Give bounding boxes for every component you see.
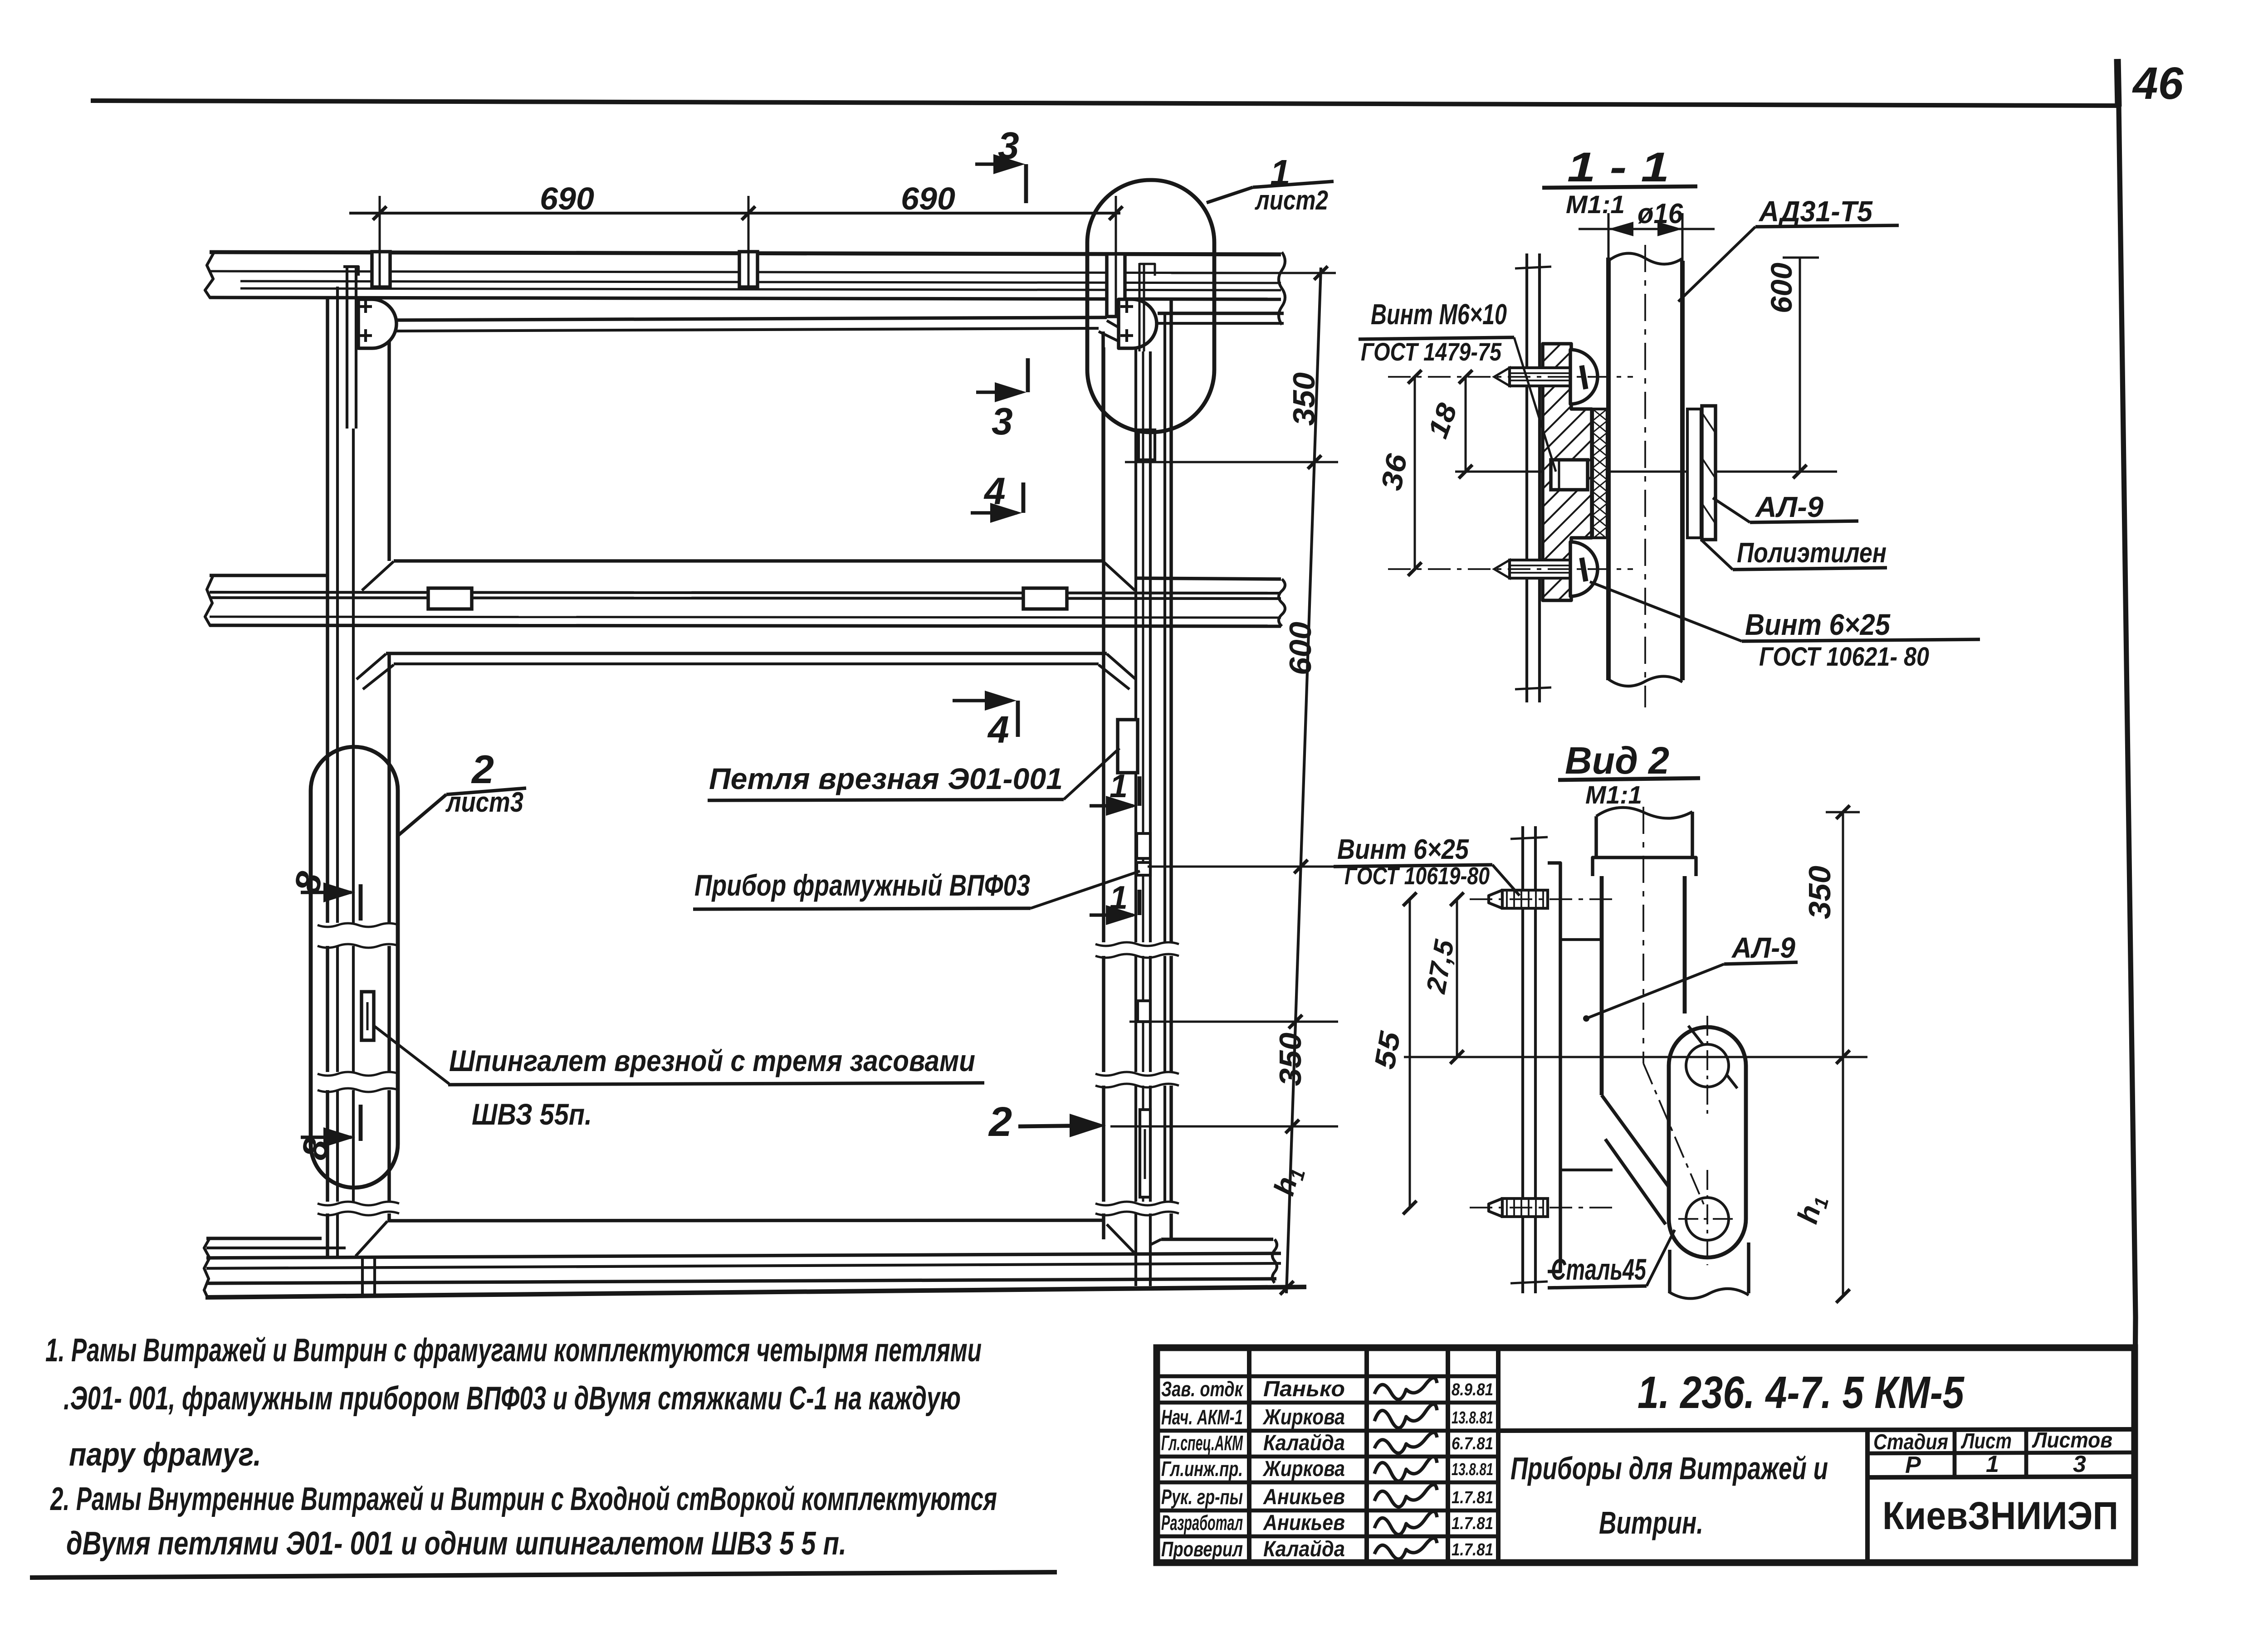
v2 tube centerline [1642, 807, 1644, 1063]
v2 tube collar [1593, 857, 1696, 876]
v2 lower screw [1489, 1199, 1502, 1217]
label: shpingalet underline [448, 1083, 984, 1085]
sill right profile top [1161, 1237, 1273, 1241]
v2 arm centerline diagonal [1643, 1063, 1706, 1208]
v2 tube top break [1596, 808, 1692, 818]
lower opening head rail [386, 652, 1107, 655]
sill left profile top edge [206, 1237, 322, 1240]
right column break 2 [1095, 1072, 1179, 1076]
elevation: top bar left break [205, 252, 214, 298]
elevation: top horizontal profile bar [210, 252, 1281, 254]
svg-text:8.9.81: 8.9.81 [1452, 1380, 1493, 1399]
1-1 dim 18 [1465, 377, 1467, 472]
v2 dim 55 [1409, 899, 1411, 1208]
1-1 gasket strip left (crosshatch) [1593, 409, 1607, 538]
svg-text:Витрин.: Витрин. [1599, 1505, 1703, 1540]
svg-text:Вид 2: Вид 2 [1565, 739, 1669, 782]
left column bottom segment [326, 1213, 329, 1258]
left column outer lines (top segment) [326, 297, 329, 923]
svg-text:1.7.81: 1.7.81 [1452, 1488, 1493, 1507]
callout 1: leader [1207, 187, 1253, 203]
svg-text:2. Рамы Внутренние Витражей: 2. Рамы Внутренние Витражей и Витрин с В… [50, 1481, 997, 1517]
left column inner edge (top segment) [387, 655, 391, 923]
sill frame bottom rail top edge [387, 1220, 1104, 1221]
v2 arm diagonal [1602, 1095, 1673, 1193]
svg-text:Полиэтилен: Полиэтилен [1737, 537, 1887, 569]
svg-text:Калайда: Калайда [1263, 1537, 1345, 1561]
left column break 3 [318, 1202, 399, 1205]
v2 tube body [1600, 876, 1604, 1095]
strip fitting at capsule bottom [1139, 430, 1155, 460]
svg-text:1 - 1: 1 - 1 [1567, 144, 1669, 190]
svg-text:6.7.81: 6.7.81 [1452, 1434, 1493, 1453]
svg-text:КиевЗНИИЭП: КиевЗНИИЭП [1882, 1494, 2118, 1538]
sill left jagged end [204, 1238, 210, 1298]
right column outer-left edge [1102, 347, 1105, 942]
svg-text:350: 350 [1273, 1033, 1308, 1086]
1-1 tube AD31-T5 right edge [1680, 261, 1685, 680]
callout 2: fraction bar [446, 788, 526, 794]
1-1 tube top break [1608, 253, 1682, 264]
svg-text:2: 2 [988, 1099, 1012, 1145]
1-1 lower screw [1494, 560, 1510, 578]
svg-text:лист2: лист2 [1255, 185, 1328, 215]
svg-text:дВумя петлями Э01- 001 и о: дВумя петлями Э01- 001 и одним шпингалет… [66, 1525, 846, 1562]
title block outer border [1157, 1348, 2135, 1563]
shpingalet slot right column [1140, 1110, 1150, 1197]
svg-text:Приборы для Витражей и: Приборы для Витражей и [1510, 1451, 1828, 1486]
1-1 tube centerline [1644, 245, 1646, 707]
title cell divider [1865, 1429, 1870, 1563]
1-1 right clamp plate [1702, 406, 1716, 540]
stadia grid [1867, 1452, 2135, 1453]
svg-text:Гл.спец.АКМ: Гл.спец.АКМ [1161, 1431, 1243, 1455]
svg-text:3: 3 [992, 400, 1013, 443]
right column segment 3 [1102, 1086, 1105, 1202]
hinge bracket top-left [358, 299, 396, 348]
svg-text:690: 690 [901, 181, 955, 216]
1-1 tube bottom break [1608, 676, 1682, 686]
left column break 1 [318, 923, 399, 927]
svg-text:1: 1 [1986, 1451, 1999, 1477]
svg-text:Аникьев: Аникьев [1263, 1485, 1345, 1509]
v2 dim 27.5 [1456, 899, 1458, 1057]
svg-text:ГОСТ 10619-80: ГОСТ 10619-80 [1344, 862, 1490, 890]
head rail corner chamfers [357, 321, 386, 337]
section mark 4 low [953, 699, 1012, 702]
elevation: top bar right break [1279, 252, 1285, 325]
1-1 center axis line mid [1455, 471, 1837, 473]
svg-text:Жиркова: Жиркова [1262, 1457, 1345, 1481]
sill band line A [206, 1253, 1281, 1258]
clip square on tie rod (right) [1107, 254, 1125, 317]
head beam protruding right of column [1158, 312, 1284, 315]
1-1 grub screw [1551, 460, 1588, 490]
svg-text:350: 350 [1803, 866, 1837, 919]
1-1 mullion double line [1525, 253, 1528, 702]
label: shpingalet leader [374, 1026, 449, 1084]
1-1 upper screw [1494, 368, 1510, 386]
sheet bottom border (left of title block) [30, 1572, 1057, 1578]
left column break 2 [318, 1072, 399, 1076]
sill band line B [206, 1263, 1281, 1268]
svg-text:600: 600 [1765, 263, 1798, 313]
svg-text:Лист: Лист [1960, 1429, 2012, 1453]
dimension 690+690 line [349, 212, 1120, 214]
svg-text:Жиркова: Жиркова [1262, 1405, 1345, 1429]
1-1 dim 600 [1799, 258, 1801, 472]
right column strip hook to tie rod [1139, 263, 1141, 351]
svg-text:ГОСТ 10621- 80: ГОСТ 10621- 80 [1759, 642, 1929, 672]
svg-text:55: 55 [1368, 1028, 1407, 1072]
svg-text:46: 46 [2132, 58, 2184, 109]
svg-text:пару фрамуг.: пару фрамуг. [69, 1437, 261, 1473]
1-1 gasket strip right (crosshatch) [1687, 409, 1701, 538]
tie strap C-1 (right) [1023, 588, 1067, 609]
left column hinge strip [346, 268, 348, 429]
fitting tick lower (8 mark) [359, 1105, 363, 1141]
v2 plate [1548, 863, 1560, 1272]
svg-text:ø16: ø16 [1637, 198, 1683, 229]
svg-text:Винт 6×25: Винт 6×25 [1337, 834, 1469, 865]
fanlight opening right inner edge [1101, 331, 1105, 561]
svg-text:2: 2 [471, 747, 494, 792]
svg-text:Р: Р [1905, 1452, 1921, 1478]
fanlight opening left inner edge [387, 331, 391, 561]
callout 2: leader [398, 794, 446, 836]
1-1 tube AD31-T5 left edge [1606, 258, 1611, 680]
svg-text:М1:1: М1:1 [1566, 190, 1625, 219]
right column break 1 [1095, 942, 1179, 946]
left column segment 2 [326, 946, 329, 1072]
svg-text:Проверил: Проверил [1161, 1537, 1243, 1561]
svg-text:АД31-Т5: АД31-Т5 [1758, 195, 1873, 228]
svg-text:Винт М6×10: Винт М6×10 [1371, 298, 1507, 331]
shpingalet slot on left column [362, 992, 374, 1040]
svg-text:ШВЗ 55п.: ШВЗ 55п. [472, 1097, 592, 1131]
svg-text:1.7.81: 1.7.81 [1452, 1514, 1493, 1533]
svg-text:Листов: Листов [2032, 1428, 2112, 1452]
middle transom band lines [210, 574, 327, 577]
svg-text:Винт 6×25: Винт 6×25 [1745, 608, 1891, 641]
right dim extension lines [1171, 272, 1336, 274]
section mark 8 upper: arrow [301, 891, 352, 894]
svg-text:ГОСТ 1479-75: ГОСТ 1479-75 [1361, 337, 1502, 366]
svg-text:М1:1: М1:1 [1585, 780, 1642, 809]
sill right end break [1272, 1239, 1277, 1283]
left column segment 3 [326, 1090, 329, 1202]
section mark 8 lower: arrow [301, 1135, 352, 1139]
v2 upper screw [1489, 890, 1502, 908]
v2 stile double line [1521, 826, 1524, 1293]
right column break 3 [1095, 1202, 1179, 1205]
right column right edge [1163, 313, 1166, 942]
v2 tube upper part [1594, 816, 1598, 857]
svg-text:13.8.81: 13.8.81 [1452, 1460, 1493, 1479]
fittings between section-1 arrows [1137, 833, 1150, 858]
svg-text:1.7.81: 1.7.81 [1452, 1540, 1493, 1559]
svg-text:Нач. АКМ-1: Нач. АКМ-1 [1161, 1405, 1243, 1429]
v2 upper hole [1686, 1044, 1729, 1087]
right column bottom segment [1102, 1213, 1105, 1239]
tie strap C-1 (left) [428, 588, 472, 609]
v2 center horizontal line [1404, 1056, 1867, 1058]
svg-text:Шпингалет врезной с тремя: Шпингалет врезной с тремя засовами [449, 1044, 975, 1077]
v2 step lines [1560, 938, 1601, 941]
clip square on tie rod (middle) [739, 252, 758, 287]
title block left-part column lines [1247, 1348, 1251, 1563]
svg-text:Калайда: Калайда [1263, 1431, 1345, 1455]
frame head rail [386, 317, 1107, 320]
hinge rect mid right column [1138, 1001, 1150, 1022]
elevation: tie rod double line [240, 281, 1281, 283]
transom right break [1279, 579, 1285, 626]
svg-text:350: 350 [1287, 372, 1321, 426]
svg-text:Аникьев: Аникьев [1263, 1511, 1345, 1535]
column stubs through sill [361, 1259, 364, 1296]
detail callout capsule (left column) [311, 747, 398, 1188]
middle transom top edge [394, 559, 1103, 563]
svg-text:600: 600 [1283, 622, 1318, 675]
v2 dim 350 + h1 [1842, 812, 1844, 1296]
clip square on tie rod (left) [372, 252, 390, 287]
right dim chain line [1286, 268, 1321, 1293]
svg-text:36: 36 [1375, 451, 1413, 493]
1-1 dim o16 [1579, 228, 1715, 230]
sheet top border line [91, 101, 2117, 106]
title block doc cell bottom line [1498, 1429, 2135, 1431]
svg-text:АЛ-9: АЛ-9 [1731, 931, 1795, 964]
section mark 3 mid [1026, 358, 1030, 392]
svg-text:Разработал: Разработал [1161, 1511, 1243, 1535]
svg-text:Петля врезная Э01-001: Петля врезная Э01-001 [709, 762, 1063, 795]
title block left-part row lines [1157, 1374, 1498, 1379]
svg-text:АЛ-9: АЛ-9 [1755, 491, 1823, 523]
svg-text:690: 690 [540, 181, 594, 216]
v2 bracket outline [1669, 1027, 1746, 1257]
sill bottom line [205, 1287, 1306, 1297]
sill chamfer at right column [1107, 1224, 1134, 1252]
transom left break [205, 575, 213, 626]
sill chamfer at left column [356, 1221, 387, 1256]
svg-text:Рук. гр-пы: Рук. гр-пы [1161, 1485, 1243, 1509]
callout 1: fraction bar [1253, 181, 1334, 187]
svg-text:лист3: лист3 [445, 787, 523, 818]
dim 690 extension lines [379, 196, 381, 287]
svg-text:.Э01- 001, фрамужным приборо: .Э01- 001, фрамужным прибором ВПФ03 и дВ… [64, 1380, 961, 1417]
svg-text:1. Рамы Витражей и Витрин: 1. Рамы Витражей и Витрин с фрамугами ко… [45, 1332, 982, 1369]
svg-text:Панько: Панько [1263, 1377, 1345, 1401]
svg-text:4: 4 [987, 708, 1009, 751]
v2 lower hole [1686, 1198, 1729, 1240]
detail callout capsule (top right corner) [1087, 180, 1214, 432]
svg-text:Зав. отдк: Зав. отдк [1161, 1377, 1244, 1401]
svg-text:Прибор фрамужный ВПФ03: Прибор фрамужный ВПФ03 [694, 868, 1030, 902]
right column segment 2 [1102, 956, 1105, 1072]
v2 bracket below-lobe strap [1668, 1250, 1672, 1293]
hinge bracket top-right [1119, 299, 1157, 348]
svg-text:Стадия: Стадия [1873, 1430, 1948, 1454]
svg-text:13.8.81: 13.8.81 [1452, 1408, 1493, 1428]
svg-text:Гл.инж.пр.: Гл.инж.пр. [1161, 1457, 1243, 1481]
svg-text:1. 236. 4-7. 5 КМ-5: 1. 236. 4-7. 5 КМ-5 [1637, 1367, 1965, 1418]
right column strip lines (top segment) [1134, 349, 1137, 942]
page number mark bar [2117, 59, 2118, 107]
VPF03 device rect on right column [1118, 720, 1138, 773]
1-1 dim 36 [1414, 377, 1416, 569]
svg-text:Сталь45: Сталь45 [1551, 1252, 1647, 1286]
sheet right border [2119, 106, 2136, 1564]
svg-text:3: 3 [2073, 1451, 2086, 1477]
fitting tick upper (8 mark) [359, 884, 363, 921]
sill bottom band edge [206, 1279, 1276, 1283]
